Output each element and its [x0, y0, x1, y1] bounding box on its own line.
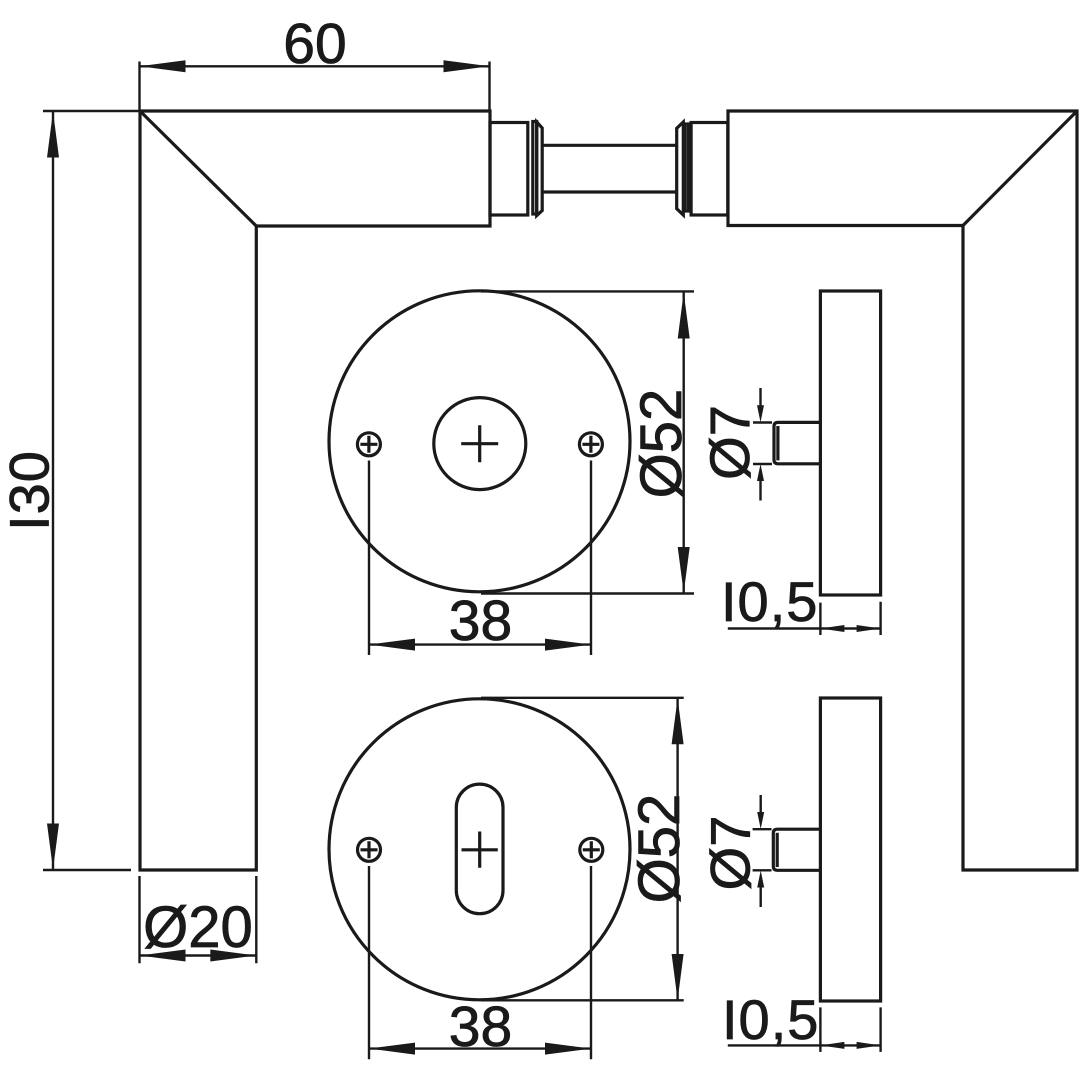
top rosette hole center cross: [461, 425, 498, 462]
spindle bar: [542, 145, 677, 192]
top rosette left screw: [357, 433, 380, 456]
svg-text:38: 38: [449, 995, 512, 1059]
bottom dim Ø52 arrowhead top: [672, 698, 684, 744]
top dim Ø52 label: [629, 389, 694, 499]
top rosette outer circle: [329, 291, 630, 592]
dim Ø20 arrowhead right: [210, 950, 256, 962]
svg-text:I0,5: I0,5: [721, 570, 818, 633]
top dim 10,5 arrowhead right: [857, 625, 881, 632]
dim 130 arrowhead bottom: [47, 824, 59, 870]
top dim 38 arrowhead left: [369, 639, 415, 651]
bottom dim Ø52 arrowhead bottom: [672, 954, 684, 1000]
dim 130 arrowhead top: [47, 112, 59, 158]
bottom dim 10,5 extension lines: [820, 1007, 880, 1052]
bottom dim 10,5 dimension line: [728, 1044, 881, 1046]
top dim Ø7 lower arrow: [757, 464, 764, 501]
left handle miter line: [140, 111, 256, 226]
svg-text:Ø7: Ø7: [699, 816, 762, 891]
dim 60 extension lines: [140, 62, 490, 111]
bottom dim 38 extension lines: [369, 866, 591, 1059]
left collar bevel: [537, 122, 543, 216]
right collar bevel: [677, 122, 684, 215]
svg-text:I30: I30: [0, 450, 61, 531]
top dim 38 dimension line: [369, 643, 591, 645]
bottom rosette right screw: [580, 838, 603, 861]
bottom dim 38 dimension line: [369, 1047, 591, 1049]
top dim Ø52 dimension line: [683, 292, 685, 594]
bottom dim 10,5 arrowhead right: [857, 1042, 881, 1049]
bottom dim 38 arrowhead left: [369, 1043, 415, 1055]
top dim 10,5 arrowhead left: [820, 625, 844, 632]
right lever handle L-shape outline: [728, 111, 1077, 870]
svg-text:I0,5: I0,5: [722, 988, 819, 1051]
right neck: [691, 123, 728, 216]
top dim Ø7 upper arrow: [757, 388, 764, 422]
dim 130 extension lines: [43, 111, 140, 870]
svg-text:38: 38: [449, 589, 512, 653]
dim Ø20 arrowhead left: [140, 950, 186, 962]
bottom dim Ø7 upper arrow: [757, 795, 764, 829]
top dim 10,5 label: [721, 570, 818, 633]
bottom dim 38 label: [449, 995, 512, 1059]
top dim 10,5 extension lines: [820, 602, 880, 635]
left lever handle L-shape outline: [140, 111, 490, 870]
svg-text:Ø20: Ø20: [143, 895, 253, 960]
svg-text:Ø52: Ø52: [627, 794, 692, 904]
top dim 38 arrowhead right: [545, 639, 591, 651]
bottom dim Ø52 label: [627, 794, 692, 904]
top rosette right screw: [579, 433, 602, 456]
bottom dim Ø7 extension ticks: [753, 829, 772, 870]
top rosette side view stub: [774, 422, 820, 463]
bottom dim 38 arrowhead right: [545, 1043, 591, 1055]
dim Ø20 extension lines: [140, 876, 257, 963]
bottom rosette outer circle: [329, 699, 630, 1000]
top dim Ø52 arrowhead top: [678, 293, 690, 339]
bottom dim Ø52 dimension line: [676, 698, 678, 1000]
top rosette handle hole: [434, 398, 526, 490]
bottom dim Ø7 lower arrow: [757, 871, 764, 908]
top dim 38 label: [449, 589, 512, 653]
svg-text:60: 60: [283, 12, 346, 76]
bottom dim 10,5 arrowhead left: [820, 1042, 844, 1049]
dim 60 arrowhead left: [140, 60, 186, 72]
dim Ø20 dimension line: [140, 954, 257, 956]
bottom rosette side view stub: [773, 829, 820, 870]
left neck: [490, 123, 528, 216]
bottom rosette keyhole cross: [462, 832, 498, 868]
dim 130 label: [0, 450, 61, 531]
dim 130 dimension line: [52, 111, 54, 870]
dim 60 dimension line: [140, 65, 490, 67]
top dim 38 extension lines: [369, 461, 591, 656]
dim Ø20 label: [143, 895, 253, 960]
top dim Ø52 arrowhead bottom: [678, 547, 690, 593]
right handle miter line: [963, 111, 1077, 226]
top dim Ø7 label: [698, 405, 761, 480]
left collar ring: [533, 122, 537, 215]
right collar ring: [685, 124, 688, 211]
bottom rosette side view plate: [820, 698, 880, 1001]
svg-text:Ø52: Ø52: [629, 389, 694, 499]
bottom rosette left screw: [358, 838, 381, 861]
bottom dim Ø7 label: [699, 816, 762, 891]
bottom rosette keyhole: [456, 784, 503, 914]
dim 60 label: [283, 12, 346, 76]
bottom dim 10,5 label: [722, 988, 819, 1051]
dim 60 arrowhead right: [444, 60, 490, 72]
top rosette side view plate: [820, 291, 880, 595]
top dim Ø52 extension lines: [481, 291, 694, 593]
top dim 10,5 dimension line: [728, 627, 881, 629]
svg-text:Ø7: Ø7: [698, 405, 761, 480]
bottom dim Ø52 extension lines: [481, 698, 684, 1001]
top dim Ø7 extension ticks: [753, 423, 772, 465]
